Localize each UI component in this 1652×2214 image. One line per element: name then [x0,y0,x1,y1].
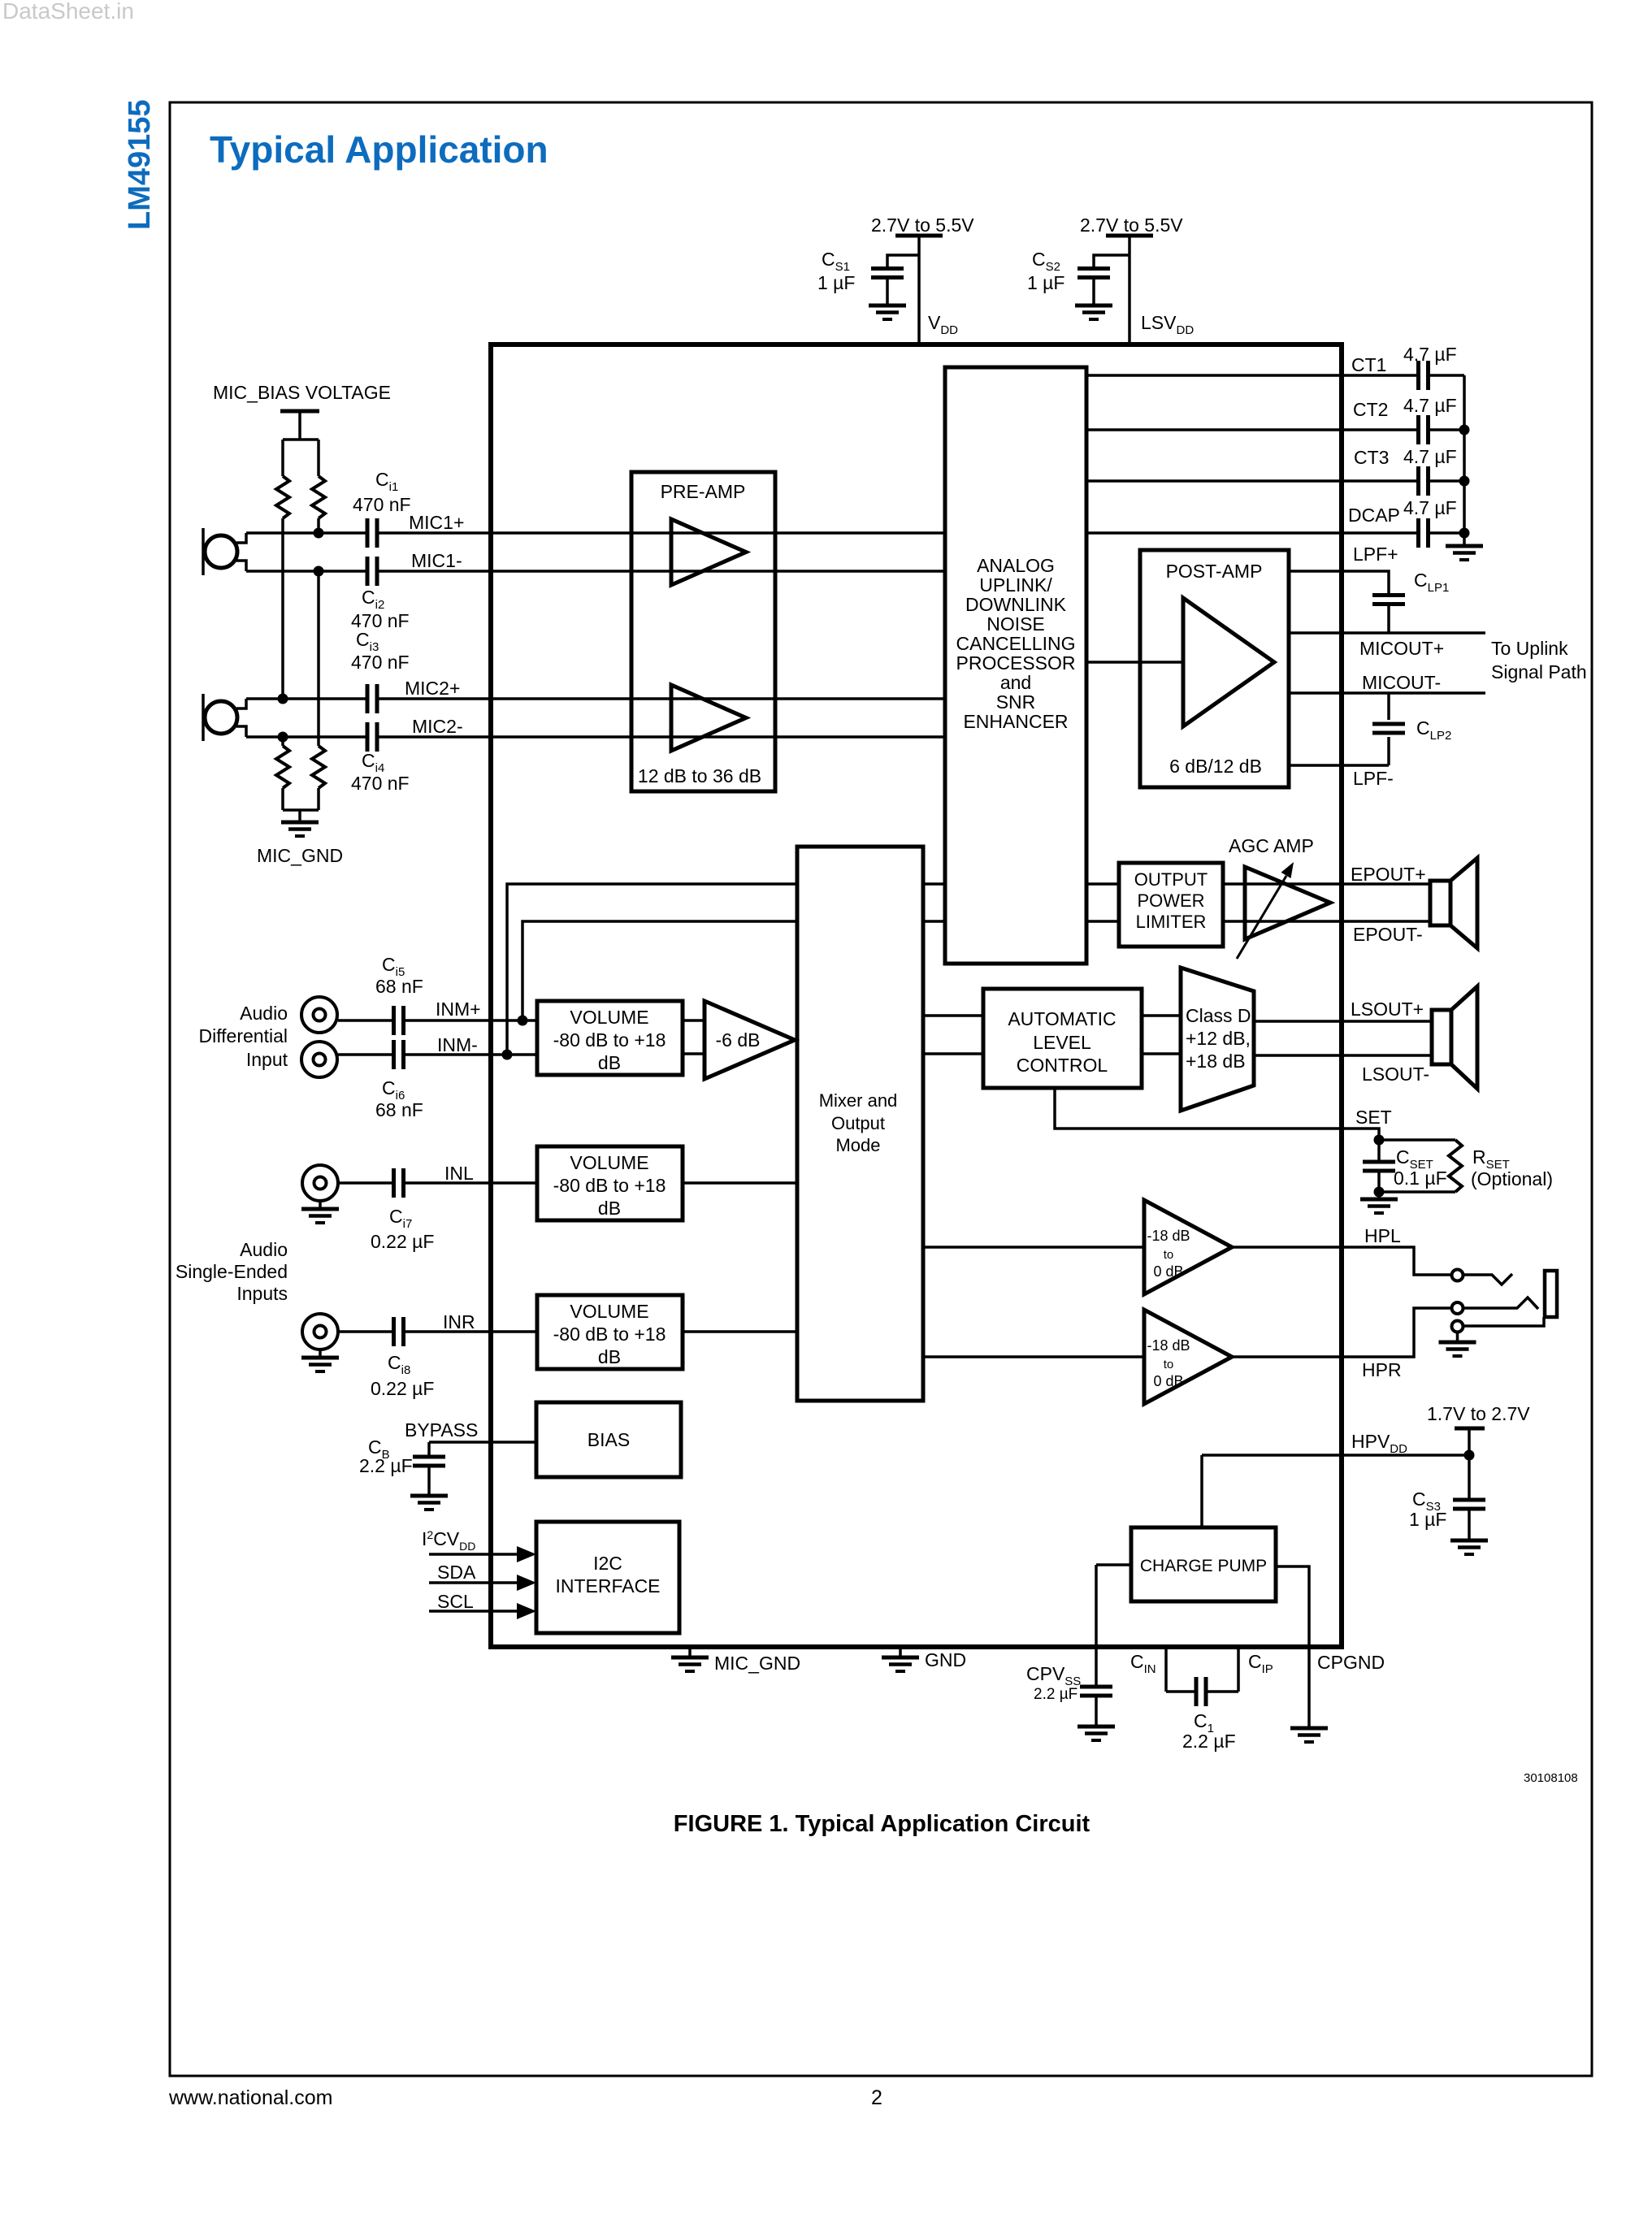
svg-text:CPVSS: CPVSS [1026,1663,1081,1688]
svg-text:ENHANCER: ENHANCER [963,711,1068,732]
svg-text:470 nF: 470 nF [351,773,410,794]
svg-text:Ci2: Ci2 [362,587,384,612]
svg-text:I2CVDD: I2CVDD [422,1528,475,1553]
svg-text:Class D: Class D [1186,1005,1251,1026]
svg-text:MIC1+: MIC1+ [409,512,464,533]
svg-text:NOISE: NOISE [986,613,1045,635]
svg-text:AUTOMATIC: AUTOMATIC [1008,1008,1116,1029]
svg-text:UPLINK/: UPLINK/ [979,574,1052,596]
svg-text:1 µF: 1 µF [817,272,855,293]
svg-text:Mixer and: Mixer and [819,1090,898,1111]
svg-text:I2C: I2C [593,1553,622,1574]
svg-text:MIC_BIAS VOLTAGE: MIC_BIAS VOLTAGE [213,382,391,403]
svg-text:1 µF: 1 µF [1027,272,1064,293]
svg-text:CANCELLING: CANCELLING [956,633,1076,654]
svg-text:4.7 µF: 4.7 µF [1403,446,1457,467]
svg-text:LPF-: LPF- [1353,768,1394,789]
svg-text:CT2: CT2 [1353,399,1388,420]
svg-text:VOLUME: VOLUME [570,1007,648,1028]
svg-text:2: 2 [871,2086,882,2109]
svg-text:Output: Output [831,1113,885,1133]
svg-text:LSOUT-: LSOUT- [1362,1064,1429,1085]
svg-text:DOWNLINK: DOWNLINK [965,594,1067,615]
svg-text:to: to [1164,1358,1174,1371]
svg-text:BIAS: BIAS [588,1429,630,1450]
svg-text:SET: SET [1355,1107,1392,1128]
svg-text:2.7V to 5.5V: 2.7V to 5.5V [1080,214,1183,236]
svg-text:68 nF: 68 nF [375,976,423,997]
svg-text:INM-: INM- [437,1034,478,1055]
svg-text:OUTPUT: OUTPUT [1134,869,1208,890]
svg-text:PROCESSOR: PROCESSOR [956,652,1076,674]
svg-text:HPR: HPR [1362,1359,1402,1380]
svg-text:MICOUT-: MICOUT- [1362,672,1441,693]
svg-text:VOLUME: VOLUME [570,1152,648,1173]
svg-text:EPOUT+: EPOUT+ [1351,864,1426,885]
svg-text:INM+: INM+ [436,999,481,1020]
svg-text:MIC2-: MIC2- [412,716,463,737]
svg-text:SCL: SCL [437,1591,474,1612]
svg-text:Ci4: Ci4 [362,750,384,775]
svg-text:Mode: Mode [835,1135,880,1155]
svg-text:Audio: Audio [240,1239,288,1260]
svg-text:+18 dB: +18 dB [1186,1051,1246,1072]
svg-text:2.7V to 5.5V: 2.7V to 5.5V [871,214,974,236]
svg-text:6 dB/12 dB: 6 dB/12 dB [1169,756,1262,777]
svg-text:CT1: CT1 [1351,354,1386,375]
svg-text:2.2 µF: 2.2 µF [1034,1686,1077,1703]
svg-text:INR: INR [443,1311,475,1332]
svg-text:SDA: SDA [437,1562,476,1583]
svg-text:0.22 µF: 0.22 µF [371,1231,434,1252]
svg-text:to: to [1164,1248,1174,1262]
svg-text:Ci8: Ci8 [388,1352,410,1377]
svg-text:EPOUT-: EPOUT- [1353,924,1423,945]
svg-text:PRE-AMP: PRE-AMP [661,481,746,502]
svg-text:1.7V to 2.7V: 1.7V to 2.7V [1427,1403,1530,1424]
svg-text:AGC AMP: AGC AMP [1229,835,1314,856]
svg-text:0.22 µF: 0.22 µF [371,1378,434,1399]
svg-text:Ci3: Ci3 [356,629,379,654]
svg-text:VOLUME: VOLUME [570,1301,648,1322]
svg-text:dB: dB [598,1198,621,1219]
svg-text:-18 dB: -18 dB [1147,1337,1190,1354]
svg-text:INL: INL [444,1163,474,1184]
svg-text:www.national.com: www.national.com [168,2086,332,2109]
svg-text:ANALOG: ANALOG [977,555,1055,576]
svg-text:LM49155: LM49155 [123,99,157,230]
svg-text:CIP: CIP [1248,1651,1273,1676]
svg-text:BYPASS: BYPASS [405,1419,478,1441]
svg-text:MIC_GND: MIC_GND [257,845,343,866]
svg-text:LEVEL: LEVEL [1033,1032,1091,1053]
svg-text:Ci1: Ci1 [375,469,398,494]
svg-text:2.2 µF: 2.2 µF [359,1455,413,1476]
svg-text:CT3: CT3 [1354,447,1389,468]
svg-text:MIC_GND: MIC_GND [714,1653,800,1674]
svg-text:To Uplink: To Uplink [1491,638,1568,659]
svg-text:-18 dB: -18 dB [1147,1228,1190,1244]
svg-text:4.7 µF: 4.7 µF [1403,497,1457,518]
svg-text:HPL: HPL [1364,1225,1401,1246]
svg-text:INTERFACE: INTERFACE [555,1575,660,1597]
svg-text:CLP2: CLP2 [1416,717,1451,743]
svg-text:SNR: SNR [996,691,1036,713]
svg-text:0 dB: 0 dB [1153,1263,1183,1280]
svg-text:1 µF: 1 µF [1409,1509,1446,1530]
svg-text:-80 dB to +18: -80 dB to +18 [553,1324,666,1345]
svg-text:Ci7: Ci7 [389,1206,412,1231]
svg-text:FIGURE 1. Typical Application: FIGURE 1. Typical Application Circuit [674,1811,1090,1837]
svg-text:Input: Input [246,1049,288,1070]
svg-text:Typical Application: Typical Application [210,128,548,171]
svg-text:-80 dB to +18: -80 dB to +18 [553,1175,666,1196]
svg-text:+12 dB,: +12 dB, [1186,1028,1251,1049]
svg-text:CHARGE PUMP: CHARGE PUMP [1140,1557,1267,1575]
svg-text:LIMITER: LIMITER [1136,912,1207,932]
svg-text:2.2 µF: 2.2 µF [1182,1731,1236,1752]
svg-text:CPGND: CPGND [1317,1652,1385,1673]
svg-text:0 dB: 0 dB [1153,1373,1183,1389]
svg-text:0.1 µF: 0.1 µF [1394,1168,1447,1189]
svg-text:CONTROL: CONTROL [1017,1055,1108,1076]
svg-text:and: and [1000,672,1031,693]
svg-text:30108108: 30108108 [1524,1771,1578,1785]
svg-text:POST-AMP: POST-AMP [1166,561,1263,582]
svg-text:dB: dB [598,1346,621,1367]
svg-text:12 dB to 36 dB: 12 dB to 36 dB [638,765,761,786]
svg-text:68 nF: 68 nF [375,1099,423,1120]
svg-text:dB: dB [598,1052,621,1073]
svg-text:LPF+: LPF+ [1353,544,1398,565]
svg-text:4.7 µF: 4.7 µF [1403,395,1457,416]
svg-text:(Optional): (Optional) [1471,1168,1553,1189]
svg-text:-6 dB: -6 dB [716,1029,761,1051]
svg-text:GND: GND [925,1649,966,1670]
svg-text:-80 dB to +18: -80 dB to +18 [553,1029,666,1051]
svg-text:HPVDD: HPVDD [1351,1431,1407,1456]
svg-text:CLP1: CLP1 [1414,570,1449,595]
svg-text:VDD: VDD [928,312,958,337]
svg-text:LSVDD: LSVDD [1141,312,1194,337]
svg-text:Audio: Audio [240,1003,288,1024]
svg-text:Signal Path: Signal Path [1491,661,1587,682]
svg-text:MICOUT+: MICOUT+ [1359,638,1444,659]
svg-text:Single-Ended: Single-Ended [176,1261,288,1282]
svg-text:470 nF: 470 nF [351,652,410,673]
svg-text:470 nF: 470 nF [353,494,411,515]
svg-text:Inputs: Inputs [236,1283,288,1304]
svg-text:DCAP: DCAP [1348,505,1400,526]
svg-text:4.7 µF: 4.7 µF [1403,344,1457,365]
svg-text:CS2: CS2 [1032,249,1060,274]
svg-text:CS1: CS1 [822,249,850,274]
svg-text:MIC2+: MIC2+ [405,678,460,699]
svg-text:CIN: CIN [1130,1651,1156,1676]
svg-text:POWER: POWER [1137,890,1204,911]
svg-text:DataSheet.in: DataSheet.in [2,0,134,24]
svg-text:Differential: Differential [198,1025,288,1046]
svg-text:LSOUT+: LSOUT+ [1351,999,1424,1020]
svg-text:MIC1-: MIC1- [411,550,462,571]
